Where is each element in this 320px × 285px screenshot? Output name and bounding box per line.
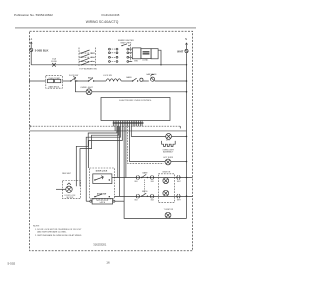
wire row1 segment xyxy=(62,80,71,82)
wire row1 from frame xyxy=(30,80,46,82)
svg-text:120VAC: 120VAC xyxy=(142,58,149,61)
svg-text:RED WHT: RED WHT xyxy=(62,173,72,175)
svg-text:Publication No. 5995410842: Publication No. 5995410842 xyxy=(14,13,53,17)
burner electrode row3 xyxy=(109,56,133,58)
motor latch terminal right xyxy=(113,200,115,202)
switch blade row2 xyxy=(81,54,93,58)
bake relay contact xyxy=(132,78,138,82)
svg-text:WHT: WHT xyxy=(177,181,181,183)
wire harness lock rail xyxy=(124,126,186,218)
lamp2 plug connector xyxy=(162,141,176,147)
node hook dashed run xyxy=(179,126,181,128)
oven lamp xyxy=(86,89,92,95)
wire row1 segment xyxy=(121,80,132,82)
node tick dashed run xyxy=(29,125,31,127)
broil relay contact row B xyxy=(141,193,148,197)
wire dashed run lower xyxy=(30,130,187,132)
junction lamp2-N xyxy=(186,136,188,138)
wire harness latch feed xyxy=(125,126,127,177)
svg-text:16: 16 xyxy=(106,261,110,265)
junction box J1 xyxy=(132,48,141,59)
door lock switch inner box xyxy=(93,174,112,184)
wire row1 segment xyxy=(77,80,89,82)
header rule xyxy=(15,27,196,29)
junction row B at N xyxy=(186,195,188,197)
bake relay contact row A xyxy=(141,174,148,178)
svg-text:NOTE:: NOTE: xyxy=(33,226,40,228)
burner electrode row1 xyxy=(109,48,133,50)
glow ignitor xyxy=(165,212,171,218)
wire harness indicator dashed xyxy=(128,126,164,163)
wire harness stair 1 to motor xyxy=(76,126,117,186)
door lock switch contact 1 xyxy=(94,176,110,181)
connector pair row A right xyxy=(176,175,180,179)
svg-text:5-50B BLK: 5-50B BLK xyxy=(35,49,49,53)
bake ignitor xyxy=(163,178,169,184)
thermostat contact box A xyxy=(47,79,53,82)
svg-text:N: N xyxy=(185,37,187,41)
svg-text:BAKE BROIL: BAKE BROIL xyxy=(49,86,60,89)
connector pair row B left xyxy=(136,194,140,198)
bake selector switch xyxy=(88,78,94,82)
node left tick xyxy=(29,80,31,82)
connector pair row B right xyxy=(176,194,180,198)
wire spark module to bus xyxy=(158,50,161,65)
svg-text:HOT SURF: HOT SURF xyxy=(163,157,173,159)
oven ignitor dashed box xyxy=(158,174,174,203)
wire N down xyxy=(186,53,188,219)
wire L1 down xyxy=(30,52,32,65)
switch gang link xyxy=(143,180,145,194)
wire harness stair 4 to lock switch xyxy=(89,126,123,168)
junction bus-N xyxy=(186,64,187,65)
safety valve coil xyxy=(140,78,143,81)
wire harness stair 3 to lock switch xyxy=(86,126,120,201)
wire row A xyxy=(112,177,193,179)
svg-text:L1: L1 xyxy=(29,37,33,41)
wire latch left stub xyxy=(86,200,90,202)
door lock switch dashed box xyxy=(90,168,115,199)
note block xyxy=(33,226,82,237)
wire top bus xyxy=(31,64,186,66)
wire row1 to N xyxy=(155,80,187,82)
connector pair row A mid xyxy=(150,175,154,179)
svg-text:LOCK SW: LOCK SW xyxy=(103,75,112,77)
spark module box xyxy=(141,49,151,59)
motor latch terminal left xyxy=(90,200,92,202)
svg-text:ELECTRONIC OVEN CONTROL: ELECTRONIC OVEN CONTROL xyxy=(119,100,152,102)
svg-text:2. SWITCHES ARE IN OVEN MODE O: 2. SWITCHES ARE IN OVEN MODE ON AT SPEED xyxy=(35,234,82,237)
junction indicator-N xyxy=(186,161,188,163)
gas valve symbol xyxy=(151,74,155,81)
wire dashed run upper xyxy=(30,125,180,127)
svg-text:T IGNITOR: T IGNITOR xyxy=(164,209,174,211)
indicator lamp xyxy=(165,159,171,165)
wire latch to lock rail xyxy=(115,200,124,202)
thermostat dashed box xyxy=(46,76,63,89)
junction row A at N xyxy=(186,177,188,179)
svg-text:IGNITOR: IGNITOR xyxy=(162,172,170,174)
svg-text:MOTOR: MOTOR xyxy=(67,197,74,199)
svg-text:5-502: 5-502 xyxy=(8,262,16,266)
svg-text:TOP BURNER SW: TOP BURNER SW xyxy=(79,68,97,70)
connector pair row B mid xyxy=(150,194,154,198)
wire row2 to N xyxy=(92,91,187,93)
motor latch box xyxy=(92,199,113,205)
svg-text:316253201: 316253201 xyxy=(93,243,107,247)
wire indicator to N xyxy=(171,161,187,163)
svg-text:BROIL: BROIL xyxy=(142,191,148,193)
terminal N xyxy=(185,43,188,53)
junction row2-N xyxy=(186,91,188,93)
schematic frame xyxy=(30,31,193,251)
fuse F1 xyxy=(52,63,56,67)
oven door switch xyxy=(70,77,77,82)
wire lamp tap xyxy=(75,81,86,92)
door lock motor xyxy=(66,183,72,193)
connector pair row A left xyxy=(136,175,140,179)
wire harness col A xyxy=(112,125,114,127)
svg-text:OVEN LIGHT: OVEN LIGHT xyxy=(80,87,93,89)
spark switch dashed rail xyxy=(130,44,132,62)
junction spark-bus xyxy=(160,64,161,65)
wire harness lamp feed xyxy=(131,126,165,136)
junction row1-N xyxy=(186,80,188,82)
broil ignitor xyxy=(163,190,169,196)
svg-text:WIRING SC-60A/CTQ: WIRING SC-60A/CTQ xyxy=(86,20,119,24)
svg-text:WHT: WHT xyxy=(177,200,181,202)
svg-text:DOOR LOCK: DOOR LOCK xyxy=(96,170,108,172)
wire lamp2 to N xyxy=(172,135,187,137)
burner electrode row2 xyxy=(109,52,133,54)
terminal strip bar xyxy=(113,122,144,123)
top burner ignition switch block xyxy=(79,48,95,67)
oven lamp 2 xyxy=(166,134,172,140)
svg-text:ASSEMBLY: ASSEMBLY xyxy=(163,151,174,154)
hi-limit thermal element xyxy=(106,79,121,81)
wire harness col B xyxy=(114,126,116,130)
switch blade row4 xyxy=(81,62,93,66)
spark module right box xyxy=(151,49,158,59)
junction lamp tap xyxy=(75,80,76,81)
terminal strip pins xyxy=(113,121,142,127)
spark reignition contact xyxy=(121,44,129,46)
door lock switch contact 2 xyxy=(94,194,110,197)
terminal L1 xyxy=(30,42,33,52)
svg-text:BAKE: BAKE xyxy=(126,76,132,79)
switch blade row1 xyxy=(81,50,93,54)
svg-text:FUSE: FUSE xyxy=(51,61,57,63)
wire harness drop to row B xyxy=(119,126,121,196)
wire row B xyxy=(114,195,192,197)
wire row1 segment xyxy=(143,80,149,82)
svg-text:AND SWITCHES ARE CLOSED.: AND SWITCHES ARE CLOSED. xyxy=(37,231,67,234)
svg-text:FGFL6ACD8: FGFL6ACD8 xyxy=(102,13,120,17)
electronic oven control box xyxy=(101,98,170,121)
wire harness drop to row A xyxy=(117,126,119,177)
wire row1 segment xyxy=(94,80,106,82)
door lock motor dashed box xyxy=(63,181,81,199)
wire motor stub left xyxy=(56,188,66,190)
switch blade row3 xyxy=(81,58,93,62)
svg-text:1. DOOR LOCK MOTOR ON WIRING O: 1. DOOR LOCK MOTOR ON WIRING OF 115 VOLT xyxy=(35,229,82,231)
thermostat contact box B xyxy=(55,79,61,82)
wire harness indicator feed xyxy=(130,126,166,161)
svg-text:LATCH: LATCH xyxy=(100,201,106,204)
burner electrode row4 xyxy=(109,61,133,63)
wire harness stair 2 to motor xyxy=(80,126,119,186)
svg-text:BAKE: BAKE xyxy=(142,171,148,174)
svg-text:WHT: WHT xyxy=(177,50,183,54)
